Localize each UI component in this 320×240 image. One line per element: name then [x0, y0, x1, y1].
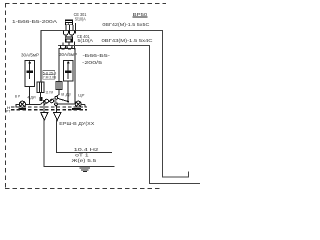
wire C from G2 — [56, 120, 112, 153]
fuse CE401 body — [65, 36, 73, 42]
ground stem G1 — [43, 101, 45, 113]
lamp HL1 right lead — [26, 104, 41, 106]
fuse CE301 body — [65, 20, 73, 25]
resistor R2 lead down — [67, 81, 69, 101]
ground connector G2 — [54, 113, 61, 121]
terminal tail lower — [74, 42, 76, 50]
resistor R1 lead down — [29, 87, 31, 105]
wire A horizontal feed y=29.5 — [41, 31, 189, 178]
fuse Fa body — [37, 82, 44, 93]
svg-text:8 ДI: 8 ДI — [61, 93, 71, 97]
connector loop U1 — [63, 31, 68, 36]
lamp HL2 — [75, 101, 81, 107]
pin table — [43, 71, 55, 80]
svg-text:-Б66-Б5-: -Б66-Б5- — [83, 53, 111, 58]
switch S2 — [55, 97, 58, 100]
fuse CE401 pins top — [65, 35, 67, 36]
lamp HL1 left lead — [16, 105, 19, 108]
fuse Fa lead — [39, 97, 42, 101]
svg-text:-200/5: -200/5 — [82, 60, 103, 65]
connector loop U2 — [69, 31, 74, 36]
lamp HL1 — [19, 101, 25, 107]
dashed enclosure border left — [5, 3, 7, 189]
connector loop U3 — [60, 46, 65, 50]
fuse CE301 pins — [65, 25, 67, 31]
svg-text:5/10(А: 5/10(А — [75, 16, 86, 21]
svg-text:оТ 1: оТ 1 — [75, 153, 89, 158]
dashed enclosure border bottom — [5, 188, 161, 190]
svg-text:ЕРШ-В ДУ(ХХ: ЕРШ-В ДУ(ХХ — [59, 121, 94, 126]
svg-text:0ВГ42(М)-1.5 5х5С: 0ВГ42(М)-1.5 5х5С — [102, 22, 150, 27]
svg-text:РТ: РТ — [6, 108, 11, 113]
lamp HL2 dashed lead right — [81, 103, 85, 105]
feed wire down to fuse Fa — [40, 31, 42, 83]
dashed bus PT — [11, 109, 87, 111]
svg-text:10.4 Нz: 10.4 Нz — [74, 147, 100, 152]
wire B horizontal y=45.5 — [58, 46, 200, 184]
ground connector G1 — [41, 113, 48, 121]
switch S1 — [40, 101, 45, 105]
svg-text:7.М 2.0В: 7.М 2.0В — [43, 76, 57, 80]
svg-text:1-Б66-Б5-200А: 1-Б66-Б5-200А — [12, 19, 58, 25]
svg-text:5(10(А: 5(10(А — [78, 38, 94, 43]
resistor R2 body right — [64, 61, 74, 82]
chassis ground bars — [80, 167, 91, 169]
svg-text:4 ДИ: 4 ДИ — [27, 95, 36, 99]
svg-text:Ж(е) 5.5: Ж(е) 5.5 — [72, 158, 97, 163]
terminal tail upper — [75, 23, 77, 33]
node A — [43, 100, 45, 102]
svg-text:ЦР: ЦР — [78, 93, 85, 97]
resistor R1 body left — [25, 61, 35, 87]
svg-text:11 ГМ: 11 ГМ — [46, 90, 54, 94]
connector loop U4 — [67, 46, 72, 50]
wire D from G1 — [44, 120, 114, 167]
svg-text:0ВГ43(М)-1.5 5х4С: 0ВГ43(М)-1.5 5х4С — [102, 38, 154, 43]
dashed enclosure border top — [5, 3, 166, 5]
svg-text:В Р: В Р — [15, 95, 21, 99]
svg-text:30А/5мР: 30А/5мР — [59, 52, 77, 57]
svg-text:30А/5мР: 30А/5мР — [21, 53, 39, 58]
svg-text:5-8 25-3: 5-8 25-3 — [43, 71, 57, 75]
dashed bus H — [11, 106, 87, 108]
sub-assembly box top — [59, 49, 75, 104]
fuse Fb body — [56, 82, 62, 90]
fuse Fb lead — [57, 90, 59, 97]
node B — [67, 101, 69, 103]
ground stem G2 — [55, 106, 58, 113]
fuse CE401 pins bottom — [62, 43, 64, 46]
wire row to lamp HL2 — [57, 103, 75, 105]
